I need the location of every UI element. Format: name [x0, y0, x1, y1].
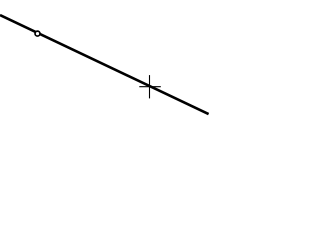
wire	[0, 15, 209, 114]
node A	[35, 31, 40, 36]
crosshair cursor	[139, 75, 161, 98]
